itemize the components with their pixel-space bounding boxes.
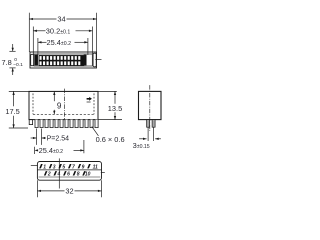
svg-text:11: 11 [93, 164, 98, 170]
svg-text:9: 9 [82, 164, 85, 170]
svg-text:0.6 × 0.6: 0.6 × 0.6 [96, 135, 125, 144]
svg-text:5: 5 [62, 164, 65, 170]
svg-text:10: 10 [85, 172, 91, 178]
svg-text:9: 9 [57, 102, 62, 111]
svg-text:8: 8 [77, 172, 80, 178]
svg-text:13.5: 13.5 [108, 104, 122, 113]
svg-text:−0.1: −0.1 [13, 62, 23, 68]
svg-text:17.5: 17.5 [5, 107, 19, 116]
svg-text:2: 2 [47, 172, 51, 178]
svg-text:7.8: 7.8 [2, 58, 12, 67]
svg-text:6: 6 [67, 172, 70, 178]
svg-text:P=2.54: P=2.54 [47, 136, 69, 143]
svg-text:4: 4 [57, 172, 61, 178]
svg-text:1: 1 [43, 164, 46, 170]
svg-text:3: 3 [53, 164, 56, 170]
svg-text:7: 7 [72, 164, 75, 170]
svg-text:32: 32 [65, 187, 73, 196]
svg-text:34: 34 [57, 15, 65, 24]
